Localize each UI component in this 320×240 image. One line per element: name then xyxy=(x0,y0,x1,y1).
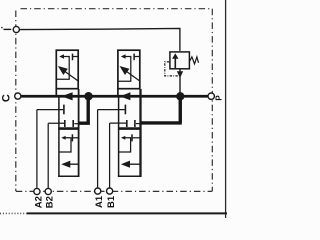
valve D2 divider xyxy=(118,127,141,130)
port B1 xyxy=(107,188,113,194)
valve U1 internals xyxy=(56,54,78,82)
relief valve RV1 pilot line xyxy=(165,62,180,76)
svg-text:B2: B2 xyxy=(45,196,56,208)
page edge line right xyxy=(225,0,227,218)
valve U2 compensator body xyxy=(118,50,140,95)
wire junction2 to valve D2 right port xyxy=(141,98,182,123)
port C xyxy=(15,93,21,99)
junction node 1 xyxy=(84,92,93,101)
valve D1 right port xyxy=(74,123,79,125)
valve D2 position-2 flow arrow A xyxy=(119,138,131,152)
valve D1 position-2 flow arrow C xyxy=(67,163,79,165)
svg-text:A2: A2 xyxy=(33,196,44,208)
wire port B2 riser xyxy=(47,123,49,188)
flow arrow on main line under valve U2 xyxy=(120,92,131,100)
port B2 xyxy=(45,188,51,194)
valve D1 position-2 blocked port xyxy=(71,134,73,141)
port P xyxy=(208,93,214,99)
page edge line bottom xyxy=(0,212,227,214)
wire port B1 riser xyxy=(109,123,111,188)
port top-left xyxy=(13,26,19,32)
relief valve RV1 body xyxy=(170,52,190,69)
relief valve RV1 arrow xyxy=(174,57,176,68)
valve D1 left edge xyxy=(58,97,60,176)
wire: top pilot line to relief valve xyxy=(20,28,180,51)
svg-text:C: C xyxy=(1,94,13,102)
svg-text:P: P xyxy=(215,95,224,101)
valve D1 divider xyxy=(58,127,79,130)
relief valve RV1 outlet xyxy=(179,69,181,95)
wire: stub left of top pilot port xyxy=(4,28,12,30)
valve D1 pilot port 1 from A2 xyxy=(37,109,63,111)
port A2 xyxy=(34,188,40,194)
svg-text:A1: A1 xyxy=(94,195,105,208)
wire junction1 to valve D1 right port xyxy=(79,97,88,123)
valve D2 position-2 blocked port xyxy=(131,134,133,141)
wire port A1 riser xyxy=(97,110,99,189)
valve D1 bottom edge xyxy=(58,175,79,177)
valve U2 internals xyxy=(118,54,140,82)
svg-text:B1: B1 xyxy=(106,195,117,208)
enclosure dash-dot border xyxy=(16,9,213,192)
valve D1 pilot port 2 from B2 xyxy=(48,122,64,124)
valve D1 position-2 flow arrow A xyxy=(59,138,71,152)
valve D2 position-2 flow arrow C xyxy=(127,163,141,165)
valve D2 bottom edge xyxy=(118,175,141,177)
valve D2 right port xyxy=(136,123,141,125)
valve D1 right edge xyxy=(78,89,80,177)
valve D2 right edge xyxy=(139,89,141,177)
valve U1 compensator body xyxy=(56,50,78,95)
valve D2 left edge xyxy=(118,97,120,176)
valve D2 pilot port 2 from B1 xyxy=(110,122,127,124)
valve D2 pilot port 1 from A1 xyxy=(98,109,125,111)
junction node 2 xyxy=(176,92,184,100)
wire port A2 riser xyxy=(36,110,38,189)
flow arrow on main line under valve U1 xyxy=(61,92,72,100)
relief valve RV1 spring xyxy=(190,57,199,64)
port A1 xyxy=(95,188,101,194)
wire: main line C to P xyxy=(21,95,208,98)
